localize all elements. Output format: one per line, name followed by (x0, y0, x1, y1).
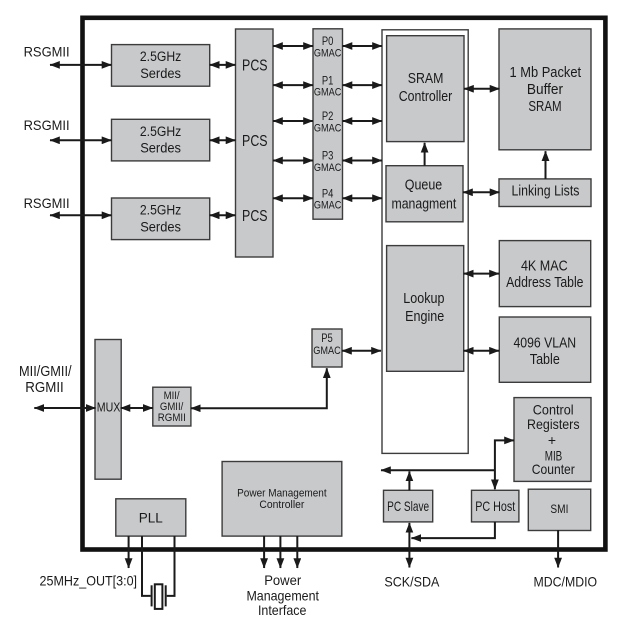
wire SMI to MDC/MDIO pin (557, 530, 559, 568)
crystal X1 right plate (165, 585, 167, 606)
wire PLL to crystal right (167, 536, 175, 596)
svg-text:SMI: SMI (550, 502, 568, 516)
block PLL (116, 499, 186, 536)
block MII/GMII/RGMII converter (153, 387, 191, 426)
svg-text:RSGMII: RSGMII (24, 43, 70, 59)
svg-text:PC Host: PC Host (475, 498, 515, 514)
wire Serdes 1 to PCS (210, 64, 236, 66)
svg-text:RGMII: RGMII (158, 412, 186, 424)
svg-text:P3: P3 (322, 149, 334, 163)
svg-text:RSGMII: RSGMII (24, 195, 70, 211)
svg-text:MDC/MDIO: MDC/MDIO (534, 573, 598, 589)
container switch-core outline (382, 30, 468, 454)
block Linking Lists (499, 179, 591, 207)
block 2.5GHz Serdes 2 (112, 119, 210, 161)
svg-text:GMAC: GMAC (314, 200, 342, 212)
block Power Management Controller (222, 462, 342, 537)
label Power Management Interface (246, 572, 319, 618)
block 2.5GHz Serdes 1 (112, 45, 210, 87)
svg-text:Lookup: Lookup (403, 291, 444, 307)
block Lookup Engine (387, 246, 464, 372)
wire P5 GMAC to Lookup Engine (342, 350, 381, 352)
wire PLL to crystal left (142, 536, 151, 596)
svg-text:25MHz_OUT[3:0]: 25MHz_OUT[3:0] (40, 572, 138, 588)
label MII/GMII/RGMII (19, 364, 72, 396)
wire P0 GMAC to switch core (343, 45, 383, 47)
svg-text:Power: Power (264, 572, 301, 588)
wire RSGMII 3 to Serdes 3 (50, 214, 112, 216)
svg-text:Buffer: Buffer (527, 82, 563, 98)
block SMI (528, 489, 590, 530)
wire RSGMII 1 to Serdes 1 (50, 64, 112, 66)
svg-text:4K MAC: 4K MAC (521, 258, 568, 274)
svg-text:1 Mb Packet: 1 Mb Packet (510, 65, 582, 81)
block 4096 VLAN Table (499, 317, 590, 382)
svg-text:Counter: Counter (532, 461, 575, 477)
wire P1 GMAC to switch core (343, 84, 383, 86)
svg-text:RSGMII: RSGMII (24, 117, 70, 133)
wire P2 GMAC to switch core (343, 120, 383, 122)
svg-text:2.5GHz: 2.5GHz (140, 124, 182, 139)
wire P3 GMAC to switch core (343, 160, 383, 162)
wire PCS to P2 GMAC (273, 120, 313, 122)
wire Lookup Engine to 4096 VLAN Table (464, 350, 499, 352)
wire RSGMII 2 to Serdes 2 (50, 139, 112, 141)
svg-text:MUX: MUX (97, 399, 121, 414)
wire MUX to MII/GMII/RGMII converter (121, 407, 153, 409)
svg-text:+: + (548, 432, 556, 448)
svg-text:Controller: Controller (399, 89, 453, 105)
block P5 GMAC (312, 329, 342, 367)
svg-text:GMAC: GMAC (314, 86, 342, 98)
svg-text:Controller: Controller (259, 499, 304, 511)
block SRAM Controller (387, 36, 464, 142)
block PC Slave (384, 490, 433, 522)
svg-text:P4: P4 (322, 186, 334, 200)
wire PMC to Power Management Interface pin 2 (279, 536, 281, 568)
wire PMC to Power Management Interface pin 1 (263, 536, 265, 568)
svg-text:GMAC: GMAC (313, 345, 341, 357)
svg-text:4096 VLAN: 4096 VLAN (513, 335, 576, 351)
svg-text:Management: Management (246, 587, 319, 603)
block 2.5GHz Serdes 3 (112, 198, 210, 240)
wire Queue managment to Linking Lists (463, 191, 500, 193)
block Control Registers + MIB Counter (514, 398, 591, 482)
wire Queue managment to SRAM Controller (424, 143, 426, 166)
wire MII/GMII/RGMII external to MUX (34, 407, 95, 409)
wire PLL to 25MHz_OUT pin (128, 536, 130, 568)
svg-text:P5: P5 (321, 331, 333, 345)
svg-text:SRAM: SRAM (528, 99, 561, 115)
svg-text:Registers: Registers (527, 416, 580, 432)
wire PC Slave to internal bus (408, 471, 410, 490)
block PCS column (3x PCS) (236, 29, 274, 257)
svg-text:Power Management: Power Management (237, 487, 327, 499)
svg-text:PCS: PCS (242, 58, 268, 75)
block 1 Mb Packet Buffer SRAM (499, 29, 591, 150)
svg-text:2.5GHz: 2.5GHz (140, 203, 182, 218)
block GMAC strip ports P0-P4 (313, 29, 343, 219)
svg-text:Serdes: Serdes (140, 141, 181, 156)
wire PCS to P3 GMAC (273, 160, 313, 162)
svg-text:P0: P0 (322, 34, 334, 48)
svg-text:PCS: PCS (242, 208, 268, 225)
wire PCS to P0 GMAC (273, 45, 313, 47)
svg-text:GMAC: GMAC (314, 47, 342, 59)
wire junction to Control Registers and PC Host (495, 440, 514, 489)
wire PCS to P4 GMAC (273, 197, 313, 199)
svg-text:Address Table: Address Table (506, 275, 583, 291)
wire PCS to P1 GMAC (273, 84, 313, 86)
wire Serdes 3 to PCS (210, 214, 236, 216)
wire PC Slave to SCK/SDA pin (408, 523, 410, 568)
svg-text:RGMII: RGMII (25, 380, 64, 396)
block 4K MAC Address Table (499, 241, 590, 307)
svg-text:SCK/SDA: SCK/SDA (384, 573, 440, 589)
block Queue managment (386, 166, 463, 222)
svg-text:Linking Lists: Linking Lists (512, 184, 580, 200)
crystal X1 left plate (151, 585, 153, 606)
wire internal bus leftward (381, 469, 495, 471)
svg-text:PLL: PLL (139, 510, 164, 525)
svg-text:Serdes: Serdes (140, 66, 181, 81)
block MUX (95, 340, 121, 480)
outer chip border (83, 18, 606, 550)
svg-text:P2: P2 (322, 109, 334, 123)
wire MII/GMII/RGMII converter to P5 GMAC (191, 368, 327, 408)
svg-text:GMAC: GMAC (314, 162, 342, 174)
svg-text:Engine: Engine (405, 309, 444, 325)
block PC Host (472, 490, 519, 522)
svg-text:2.5GHz: 2.5GHz (140, 49, 182, 64)
svg-text:PCS: PCS (242, 133, 268, 150)
wire SRAM Controller to Packet Buffer SRAM (464, 88, 500, 90)
svg-text:PC Slave: PC Slave (387, 498, 429, 514)
svg-text:Table: Table (530, 352, 560, 368)
wire Serdes 2 to PCS (210, 139, 236, 141)
wire Lookup Engine to 4K MAC Address Table (464, 273, 499, 275)
wire Linking Lists to Packet Buffer SRAM (545, 151, 547, 179)
svg-text:GMAC: GMAC (314, 122, 342, 134)
svg-text:Serdes: Serdes (140, 219, 181, 234)
wire PMC to Power Management Interface pin 3 (296, 536, 298, 568)
svg-text:Interface: Interface (258, 602, 307, 618)
svg-text:MII/GMII/: MII/GMII/ (19, 364, 72, 380)
wire P4 GMAC to switch core (343, 197, 383, 199)
svg-text:P1: P1 (322, 73, 334, 87)
svg-text:SRAM: SRAM (408, 71, 444, 87)
crystal X1 body (155, 584, 163, 609)
svg-text:managment: managment (392, 197, 457, 213)
wire PC Host to PC Slave link (411, 522, 495, 538)
svg-text:Queue: Queue (405, 177, 443, 193)
